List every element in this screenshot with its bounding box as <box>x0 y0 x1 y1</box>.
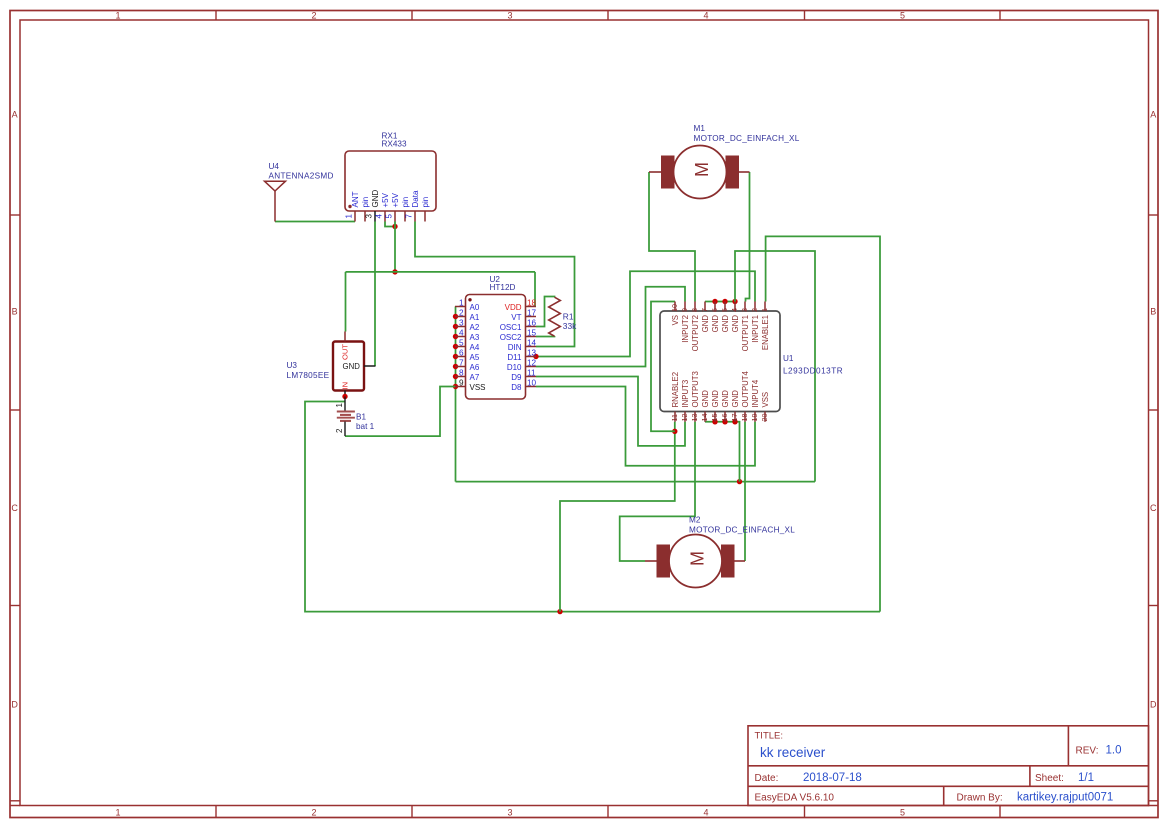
svg-text:OUTPUT4: OUTPUT4 <box>741 370 750 407</box>
wire +5V rail U3.OUT to U2.VDD <box>346 271 536 273</box>
svg-text:Data: Data <box>411 190 420 207</box>
svg-text:1: 1 <box>335 403 344 408</box>
junction dots on U2 left pins <box>453 314 458 319</box>
svg-text:33k: 33k <box>563 321 577 331</box>
svg-text:VS: VS <box>671 315 680 325</box>
U2 left pins 1-9 <box>455 306 466 308</box>
svg-text:GND: GND <box>701 315 710 333</box>
svg-text:2: 2 <box>311 807 316 817</box>
svg-text:A3: A3 <box>470 333 480 342</box>
svg-text:ANT: ANT <box>351 191 360 207</box>
junction dot +5V rail <box>392 269 397 274</box>
svg-text:7: 7 <box>405 214 414 219</box>
svg-text:Drawn By:: Drawn By: <box>957 793 1003 804</box>
svg-text:18: 18 <box>527 299 537 308</box>
svg-text:GND: GND <box>721 315 730 333</box>
svg-text:20: 20 <box>760 414 769 422</box>
U2 right pins 18-10 <box>526 306 537 308</box>
svg-text:OUTPUT2: OUTPUT2 <box>691 315 700 351</box>
svg-text:A0: A0 <box>470 303 480 312</box>
motor M1 MOTOR_DC_EINFACH_XL <box>661 156 675 189</box>
svg-text:16: 16 <box>720 414 729 422</box>
svg-text:3: 3 <box>507 807 512 817</box>
svg-text:U1: U1 <box>783 354 794 363</box>
svg-text:7: 7 <box>700 308 709 312</box>
svg-text:2: 2 <box>311 10 316 20</box>
svg-text:1: 1 <box>459 299 464 308</box>
svg-text:REV:: REV: <box>1076 746 1099 757</box>
svg-text:M: M <box>688 551 708 566</box>
svg-text:GND: GND <box>711 390 720 408</box>
svg-text:kk receiver: kk receiver <box>760 745 826 760</box>
svg-text:C: C <box>1150 503 1157 513</box>
wire supply to U1 ENABLE1 pin1 <box>766 236 880 611</box>
svg-text:A2: A2 <box>470 323 480 332</box>
svg-text:+5V: +5V <box>391 192 400 207</box>
wire M1 right terminal to U1 OUTPUT1 pin3 <box>746 172 750 302</box>
wire U2 address pins bus A0-A7 VSS down to ground rail <box>455 307 457 482</box>
svg-text:INPUT4: INPUT4 <box>751 379 760 407</box>
svg-text:16: 16 <box>527 319 537 328</box>
U1 top pins 10-1 <box>674 302 676 312</box>
svg-text:ENABLE1: ENABLE1 <box>761 315 770 350</box>
junction dots U1 top gnd pins <box>712 299 717 304</box>
svg-text:3: 3 <box>507 10 512 20</box>
wire R1 top to U2 OSC1 <box>536 297 555 327</box>
svg-text:17: 17 <box>527 309 537 318</box>
svg-text:A5: A5 <box>470 353 480 362</box>
wire battery minus to U2 VSS <box>345 387 456 437</box>
svg-text:LM7805EE: LM7805EE <box>287 371 330 380</box>
svg-text:15: 15 <box>710 414 719 422</box>
svg-text:17: 17 <box>730 414 739 422</box>
svg-text:D: D <box>1150 700 1157 710</box>
svg-text:D: D <box>11 700 18 710</box>
wire U1 bottom GND bus <box>705 422 740 482</box>
wire RX1 pin5 +5V riser <box>394 222 396 272</box>
svg-text:6: 6 <box>459 349 464 358</box>
wire VDD drop to U2 pin18 <box>534 272 536 306</box>
wire U1 OUTPUT4 pin18 to M2 right terminal <box>744 422 746 561</box>
svg-text:3: 3 <box>365 214 374 219</box>
svg-text:EasyEDA V5.6.10: EasyEDA V5.6.10 <box>755 793 835 804</box>
svg-text:GND: GND <box>343 362 361 371</box>
svg-text:OSC1: OSC1 <box>500 323 522 332</box>
RX1 pin1 marker dot <box>348 205 351 208</box>
svg-text:A6: A6 <box>470 363 480 372</box>
svg-text:GND: GND <box>731 390 740 408</box>
svg-text:pin: pin <box>421 197 430 208</box>
svg-text:VSS: VSS <box>470 383 486 392</box>
svg-text:A1: A1 <box>470 313 480 322</box>
svg-text:+5V: +5V <box>381 192 390 207</box>
wire RX1 pin4 jog to +5V riser <box>385 222 395 227</box>
svg-text:2: 2 <box>335 428 344 433</box>
svg-text:pin: pin <box>401 197 410 208</box>
wire supply riser to U1 ENABLE2 pin11 <box>560 422 675 612</box>
junction dot pin11 branch <box>672 429 677 434</box>
svg-text:C: C <box>11 503 18 513</box>
svg-text:4: 4 <box>703 10 708 20</box>
svg-text:11: 11 <box>527 369 536 378</box>
svg-text:GND: GND <box>721 390 730 408</box>
voltage regulator U3 LM7805EE <box>333 342 364 391</box>
svg-text:DIN: DIN <box>508 343 522 352</box>
svg-text:VSS: VSS <box>761 392 770 408</box>
motor M2 MOTOR_DC_EINFACH_XL <box>657 545 671 578</box>
svg-text:B: B <box>12 307 18 317</box>
svg-text:Sheet:: Sheet: <box>1035 773 1064 784</box>
svg-text:5: 5 <box>385 214 394 219</box>
svg-text:12: 12 <box>527 359 537 368</box>
svg-text:15: 15 <box>527 329 537 338</box>
wire U1 top GND bus <box>705 301 735 303</box>
svg-text:R1: R1 <box>563 312 574 322</box>
svg-text:OUT: OUT <box>341 344 350 360</box>
svg-text:GND: GND <box>371 190 380 208</box>
svg-text:U4: U4 <box>269 162 280 171</box>
svg-text:IN: IN <box>341 382 350 390</box>
svg-text:VDD: VDD <box>505 303 522 312</box>
svg-text:GND: GND <box>701 390 710 408</box>
svg-text:13: 13 <box>527 349 537 358</box>
svg-text:MOTOR_DC_EINFACH_XL: MOTOR_DC_EINFACH_XL <box>689 526 795 535</box>
U2 pin1 marker dot <box>468 298 471 301</box>
svg-text:13: 13 <box>690 414 699 422</box>
svg-text:1: 1 <box>115 10 120 20</box>
junction dot at D11 pin <box>533 354 538 359</box>
svg-text:kartikey.rajput0071: kartikey.rajput0071 <box>1017 792 1113 804</box>
wire U2 D8 to U1 INPUT4 pin19 <box>536 387 755 466</box>
decoder U2 HT12D <box>466 295 526 400</box>
U1 bottom pins 11-20 <box>674 412 676 422</box>
svg-text:pin: pin <box>361 197 370 208</box>
svg-text:1/1: 1/1 <box>1078 772 1094 784</box>
svg-text:D9: D9 <box>511 373 522 382</box>
svg-text:RNABLE2: RNABLE2 <box>671 372 680 408</box>
svg-text:A: A <box>1150 110 1156 120</box>
svg-text:2: 2 <box>750 308 759 312</box>
RX1 pins <box>354 211 356 222</box>
wire battery plus to supply rail <box>305 402 880 612</box>
svg-text:A4: A4 <box>470 343 480 352</box>
wire R1 bottom to U2 OSC2 <box>536 335 555 338</box>
svg-text:11: 11 <box>670 414 679 421</box>
svg-text:L293DD013TR: L293DD013TR <box>783 366 843 375</box>
svg-text:2018-07-18: 2018-07-18 <box>803 772 862 784</box>
svg-text:Date:: Date: <box>755 773 779 784</box>
svg-text:RX433: RX433 <box>382 140 407 149</box>
svg-text:D10: D10 <box>507 363 522 372</box>
svg-text:OSC2: OSC2 <box>500 333 522 342</box>
svg-text:A: A <box>12 110 18 120</box>
svg-text:9: 9 <box>680 308 689 312</box>
wire U3 OUT riser <box>345 272 347 332</box>
svg-text:TITLE:: TITLE: <box>755 731 784 742</box>
svg-text:14: 14 <box>527 339 537 348</box>
svg-text:1.0: 1.0 <box>1106 745 1122 757</box>
wire U1 top GND to ground rail right riser <box>735 251 815 482</box>
svg-text:5: 5 <box>459 339 464 348</box>
border bottom strip caps <box>10 805 20 807</box>
svg-text:10: 10 <box>527 379 537 388</box>
svg-text:3: 3 <box>459 319 464 328</box>
motor driver U1 L293DD013TR <box>660 311 780 412</box>
svg-text:ANTENNA2SMD: ANTENNA2SMD <box>269 172 334 181</box>
title block <box>748 726 1149 806</box>
svg-text:HT12D: HT12D <box>490 283 516 292</box>
wire U2 D10 to U1 INPUT2 pin9 <box>536 287 685 367</box>
svg-text:18: 18 <box>740 414 749 422</box>
svg-text:OUTPUT3: OUTPUT3 <box>691 371 700 407</box>
wire U2 D11 to U1 INPUT1 pin2 <box>536 271 755 356</box>
U3 IN pin <box>344 391 346 397</box>
svg-text:7: 7 <box>459 359 464 368</box>
antenna U4 ANTENNA2SMD <box>265 181 286 191</box>
wire antenna to RX1 pin1 <box>275 221 355 223</box>
svg-text:1: 1 <box>115 807 120 817</box>
svg-text:OUTPUT1: OUTPUT1 <box>741 315 750 351</box>
wire U1 OUTPUT3 pin13 to M2 left terminal <box>620 422 695 561</box>
svg-text:M2: M2 <box>689 516 701 525</box>
svg-text:B: B <box>1150 307 1156 317</box>
wire RX1 pin7 Data to U2 DIN <box>415 222 575 347</box>
svg-text:14: 14 <box>700 414 709 422</box>
svg-text:1: 1 <box>345 214 354 219</box>
svg-text:5: 5 <box>720 308 729 312</box>
svg-text:4: 4 <box>703 807 708 817</box>
svg-text:4: 4 <box>459 329 464 338</box>
junction dot ground rail / U1 gnd drop <box>737 479 742 484</box>
junction dot pin4/pin5 <box>392 224 397 229</box>
wire RX1 pin3 GND down to U3 GND pin <box>374 222 376 367</box>
receiver module RX1 RX433 <box>345 151 436 211</box>
wire branch to U1 VS pin10 <box>651 302 675 432</box>
junction dot supply rail <box>557 609 562 614</box>
svg-text:GND: GND <box>731 315 740 333</box>
svg-text:6: 6 <box>710 308 719 312</box>
svg-text:D8: D8 <box>511 383 522 392</box>
svg-text:MOTOR_DC_EINFACH_XL: MOTOR_DC_EINFACH_XL <box>694 134 800 143</box>
svg-text:M1: M1 <box>694 124 706 133</box>
svg-text:D11: D11 <box>507 353 522 362</box>
junction dots U1 bottom gnd pins <box>712 419 717 424</box>
svg-text:1: 1 <box>760 308 769 312</box>
svg-text:3: 3 <box>740 308 749 312</box>
svg-text:5: 5 <box>900 807 905 817</box>
svg-text:8: 8 <box>459 369 464 378</box>
svg-text:A7: A7 <box>470 373 480 382</box>
svg-text:bat 1: bat 1 <box>356 422 375 431</box>
svg-text:4: 4 <box>730 308 739 312</box>
svg-text:4: 4 <box>375 214 384 219</box>
svg-text:12: 12 <box>680 414 689 422</box>
svg-text:M: M <box>692 162 712 177</box>
svg-text:5: 5 <box>900 10 905 20</box>
svg-text:VT: VT <box>511 313 521 322</box>
U3 GND pin <box>364 365 376 367</box>
svg-text:INPUT3: INPUT3 <box>681 380 690 408</box>
U3 OUT pin <box>344 332 346 342</box>
wire U2 D9 to U1 INPUT3 pin12 <box>536 377 685 446</box>
svg-text:INPUT2: INPUT2 <box>681 315 690 343</box>
resistor R1 33k <box>549 297 561 336</box>
svg-text:INPUT1: INPUT1 <box>751 315 760 343</box>
wire M1 left terminal to U1 OUTPUT2 pin8 <box>649 172 695 302</box>
svg-text:GND: GND <box>711 315 720 333</box>
svg-text:19: 19 <box>750 414 759 422</box>
svg-text:2: 2 <box>459 309 464 318</box>
svg-text:U3: U3 <box>287 361 298 370</box>
battery B1 bat 1 <box>344 397 346 412</box>
svg-text:8: 8 <box>690 308 699 312</box>
svg-text:9: 9 <box>459 379 464 388</box>
svg-text:10: 10 <box>670 304 679 312</box>
ground rail horizontal <box>456 481 816 483</box>
junction dot U3 IN / battery plus <box>342 394 347 399</box>
svg-text:B1: B1 <box>356 412 366 421</box>
